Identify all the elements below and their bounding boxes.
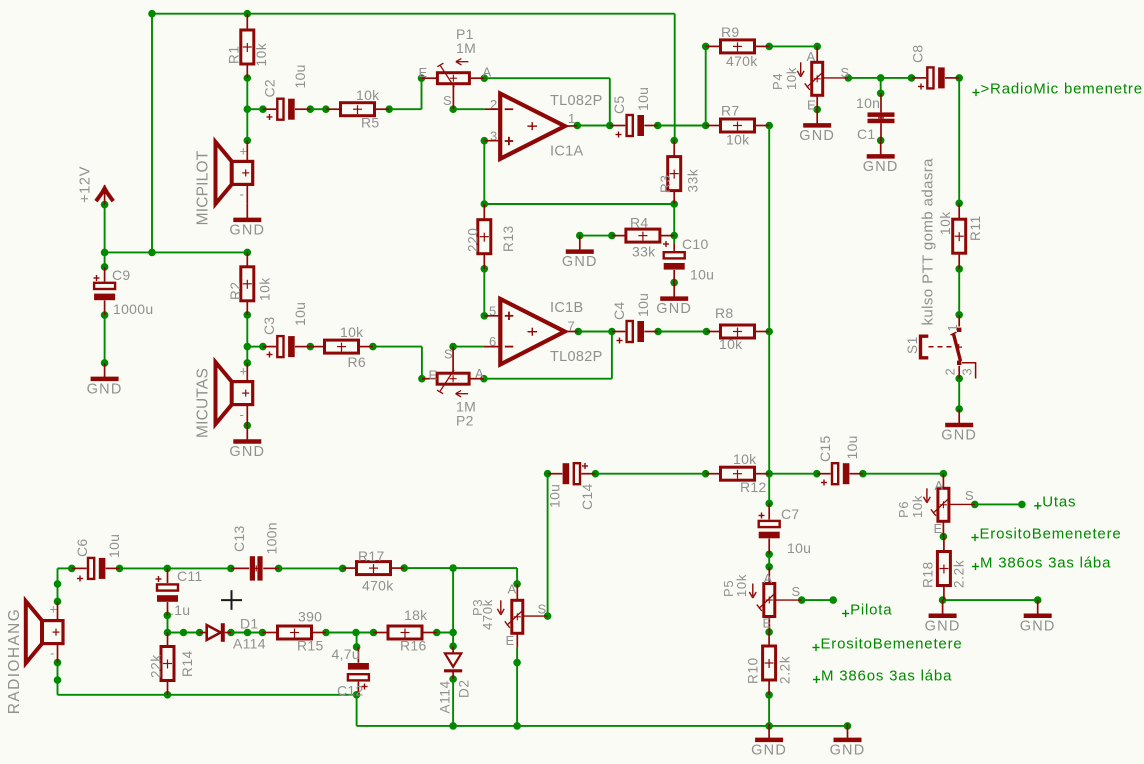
net label ErositoBemenetere left — [812, 635, 962, 652]
resistor R12 — [706, 451, 770, 495]
svg-text:E: E — [429, 368, 438, 383]
svg-text:+: + — [240, 144, 248, 159]
speaker MICUTAS — [195, 362, 253, 438]
junction — [164, 612, 204, 637]
junction — [148, 10, 251, 18]
svg-text:R10: R10 — [746, 657, 761, 684]
wire — [310, 108, 326, 110]
capacitor C15 — [817, 435, 863, 485]
svg-text:R8: R8 — [715, 305, 734, 321]
svg-text:10u: 10u — [292, 64, 308, 88]
svg-text:10u: 10u — [787, 540, 811, 556]
svg-text:C9: C9 — [112, 267, 131, 283]
svg-text:10u: 10u — [292, 302, 308, 326]
capacitor C1 — [856, 93, 895, 142]
svg-text:10k: 10k — [254, 43, 269, 67]
junction — [259, 343, 488, 383]
svg-text:GND: GND — [751, 742, 787, 758]
svg-text:IC1A: IC1A — [550, 144, 583, 160]
svg-text:1000u: 1000u — [113, 301, 153, 317]
svg-text:R5: R5 — [361, 115, 380, 131]
svg-text:C3: C3 — [261, 317, 277, 336]
net label RadioMic bemenetre — [972, 80, 1142, 97]
junction — [574, 122, 774, 130]
capacitor C3 — [261, 302, 310, 358]
speaker MICPILOT — [195, 142, 253, 226]
svg-text:R17: R17 — [358, 548, 385, 564]
wire — [577, 125, 610, 127]
svg-text:A: A — [935, 478, 944, 493]
junction — [670, 137, 678, 287]
svg-text:R16: R16 — [400, 638, 427, 654]
resistor R6 — [310, 324, 373, 370]
wire — [768, 695, 770, 726]
capacitor C10 — [663, 236, 714, 283]
svg-text:33k: 33k — [632, 244, 656, 260]
svg-text:TL082P: TL082P — [550, 93, 603, 109]
wire — [246, 78, 248, 141]
junction — [845, 74, 964, 144]
svg-text:C15: C15 — [817, 435, 833, 462]
junction — [939, 501, 1042, 604]
svg-text:C7: C7 — [781, 506, 800, 522]
svg-text:E: E — [763, 616, 772, 631]
svg-text:A: A — [764, 571, 773, 586]
svg-text:2.2k: 2.2k — [952, 560, 967, 588]
resistor R16 — [374, 607, 437, 654]
op-amp IC1A — [490, 93, 603, 160]
wire — [58, 567, 72, 569]
svg-text:10k: 10k — [733, 451, 757, 467]
svg-text:10k: 10k — [910, 495, 925, 518]
capacitor C7 — [759, 503, 812, 556]
op-amp pins — [484, 109, 578, 346]
junction — [544, 470, 947, 478]
ground (P4) — [799, 109, 835, 143]
svg-text:470k: 470k — [362, 578, 394, 594]
junction — [259, 105, 393, 113]
wire — [247, 108, 263, 110]
svg-text:S: S — [841, 65, 850, 80]
resistor R14 — [149, 633, 196, 695]
svg-text:R11: R11 — [968, 215, 983, 241]
resistor R5 — [326, 87, 389, 131]
svg-text:470k: 470k — [480, 599, 495, 630]
capacitor C14 — [547, 463, 596, 510]
wire — [609, 78, 611, 125]
svg-text:10k: 10k — [258, 277, 273, 301]
svg-text:R6: R6 — [348, 354, 367, 370]
potentiometer P1 — [419, 26, 492, 109]
svg-text:+12V: +12V — [78, 166, 94, 203]
svg-text:MICPILOT: MICPILOT — [195, 150, 212, 225]
op-amp IC1B — [489, 299, 603, 365]
svg-text:Utas: Utas — [1042, 494, 1076, 511]
ground (rail left) — [751, 724, 787, 759]
wire — [484, 203, 674, 205]
capacitor C6 — [72, 534, 122, 582]
wire — [516, 663, 518, 726]
svg-text:10k: 10k — [726, 132, 750, 148]
svg-text:R1: R1 — [227, 45, 242, 64]
svg-text:C12: C12 — [337, 683, 364, 699]
svg-text:A: A — [508, 582, 517, 597]
svg-text:C5: C5 — [611, 96, 627, 115]
capacitor C9 — [94, 267, 154, 317]
potentiometer P2 — [422, 347, 484, 429]
potentiometer P6 — [896, 474, 975, 537]
svg-text:10k: 10k — [356, 87, 380, 103]
svg-text:-: - — [240, 407, 245, 422]
junction — [101, 263, 109, 367]
svg-text:4,7u: 4,7u — [332, 646, 360, 662]
wire — [357, 725, 769, 727]
svg-text:R12: R12 — [740, 479, 767, 495]
junction — [164, 580, 552, 698]
resistor R18 — [921, 537, 967, 601]
net label Pilota — [842, 601, 892, 618]
wire — [356, 633, 358, 647]
svg-text:>RadioMic bemenetre: >RadioMic bemenetre — [981, 80, 1143, 97]
wire — [105, 251, 248, 253]
resistor R13 — [466, 204, 517, 269]
potentiometer P3 — [470, 582, 548, 649]
svg-text:C6: C6 — [74, 539, 90, 558]
wire — [975, 503, 1022, 505]
wire — [373, 346, 422, 348]
svg-text:1M: 1M — [456, 40, 476, 56]
ground (R18 right) — [1020, 600, 1056, 635]
svg-text:D2: D2 — [457, 679, 472, 698]
svg-text:RADIOHANG: RADIOHANG — [6, 608, 23, 714]
wire — [578, 331, 612, 333]
svg-text:TL082P: TL082P — [550, 349, 603, 365]
svg-text:GND: GND — [656, 301, 692, 317]
svg-text:C10: C10 — [682, 236, 709, 252]
svg-text:220: 220 — [466, 227, 481, 252]
net label ErositoBemenetere right — [971, 525, 1121, 542]
junction — [244, 74, 252, 144]
svg-text:GND: GND — [925, 618, 961, 634]
wire — [326, 632, 374, 634]
svg-text:10u: 10u — [106, 534, 122, 558]
svg-text:10u: 10u — [635, 293, 651, 317]
wire — [404, 567, 517, 569]
wire — [421, 78, 423, 109]
capacitor C5 — [610, 87, 658, 138]
wire — [483, 269, 485, 316]
svg-text:M 386os 3as lába: M 386os 3as lába — [980, 554, 1111, 571]
wire — [152, 13, 675, 15]
svg-text:GND: GND — [229, 444, 265, 460]
svg-text:10n: 10n — [856, 95, 880, 111]
junction — [353, 642, 521, 729]
resistor R2 — [228, 252, 273, 315]
svg-text:10k: 10k — [719, 336, 743, 352]
ground (C10) — [656, 283, 692, 318]
wire — [580, 235, 612, 237]
wire — [246, 315, 248, 363]
svg-text:M 386os 3as lába: M 386os 3as lába — [821, 667, 952, 684]
ground (MICUTAS) — [229, 426, 265, 461]
diode D1 — [200, 616, 266, 652]
wire — [958, 379, 960, 410]
svg-text:D1: D1 — [240, 616, 259, 632]
capacitor C13 — [231, 522, 280, 580]
junction — [418, 74, 488, 113]
wire — [943, 599, 1038, 601]
svg-text:R3: R3 — [658, 174, 673, 193]
svg-text:C8: C8 — [910, 45, 926, 64]
wire — [356, 695, 358, 726]
svg-text:10u: 10u — [844, 435, 860, 459]
capacitor C11 — [156, 568, 203, 618]
ground (C9) — [87, 363, 123, 398]
svg-text:GND: GND — [562, 254, 598, 270]
ground (R18 left) — [925, 600, 961, 635]
switch S1 — [905, 315, 976, 379]
wire — [769, 45, 817, 47]
svg-text:1: 1 — [568, 111, 576, 126]
wire — [279, 567, 343, 569]
svg-text:A114: A114 — [233, 636, 266, 652]
svg-text:S: S — [538, 602, 547, 617]
svg-text:2: 2 — [943, 368, 958, 376]
wire — [658, 125, 706, 127]
svg-text:R18: R18 — [921, 561, 936, 588]
junction — [798, 596, 837, 604]
junction — [101, 201, 251, 256]
resistor R7 — [706, 103, 770, 148]
svg-text:kulso PTT gomb adasra: kulso PTT gomb adasra — [920, 158, 937, 326]
svg-text:22k: 22k — [149, 654, 164, 678]
wire — [484, 77, 610, 79]
wire — [769, 473, 817, 475]
svg-text:1: 1 — [945, 324, 960, 332]
potentiometer P5 — [721, 567, 802, 632]
wire — [104, 315, 106, 363]
svg-text:10k: 10k — [784, 67, 799, 90]
svg-text:GND: GND — [1020, 618, 1056, 634]
wire — [595, 473, 705, 475]
svg-text:R7: R7 — [721, 103, 740, 119]
wire — [658, 331, 706, 333]
svg-text:GND: GND — [799, 128, 835, 144]
svg-text:A: A — [483, 65, 492, 80]
wire — [421, 347, 423, 379]
junction — [702, 43, 821, 114]
wire — [120, 567, 231, 569]
wire — [231, 632, 262, 634]
junction — [68, 564, 457, 572]
svg-text:A114: A114 — [438, 680, 453, 713]
junction — [481, 137, 489, 320]
svg-text:GND: GND — [87, 381, 123, 397]
wire — [453, 108, 485, 110]
wire — [880, 78, 882, 93]
speaker pins — [58, 141, 248, 663]
svg-text:S: S — [444, 347, 453, 362]
svg-text:A: A — [807, 49, 816, 64]
wire — [674, 14, 676, 141]
capacitor C2 — [262, 64, 311, 120]
wire — [437, 632, 453, 634]
wire — [516, 568, 518, 584]
svg-text:E: E — [419, 65, 428, 80]
speaker RADIOHANG — [6, 601, 63, 714]
wire — [768, 126, 770, 504]
wire — [863, 473, 944, 475]
svg-text:-: - — [240, 187, 245, 202]
wire — [516, 648, 518, 663]
svg-text:R13: R13 — [501, 225, 516, 252]
net label M386 right — [972, 554, 1111, 571]
svg-text:C13: C13 — [231, 525, 247, 552]
resistor R15 — [262, 609, 326, 654]
svg-text:GND: GND — [830, 742, 866, 758]
resistor R10 — [746, 632, 793, 695]
wire — [453, 346, 484, 348]
svg-text:ErositoBemenetere: ErositoBemenetere — [980, 525, 1122, 542]
potentiometer P4 — [770, 46, 850, 112]
junction — [244, 311, 252, 429]
svg-text:.1u: .1u — [170, 602, 190, 618]
svg-text:10k: 10k — [734, 574, 749, 597]
+12V supply symbol — [78, 166, 114, 205]
junction — [54, 580, 62, 684]
svg-text:MICUTAS: MICUTAS — [195, 368, 212, 438]
capacitor C4 — [611, 293, 658, 344]
net label Utas — [1034, 494, 1076, 511]
wire — [247, 346, 263, 348]
svg-text:P2: P2 — [456, 413, 474, 429]
svg-text:A: A — [475, 366, 484, 381]
svg-text:E: E — [934, 521, 943, 536]
svg-text:R2: R2 — [228, 281, 243, 300]
svg-text:P6: P6 — [896, 501, 911, 518]
wire — [958, 78, 960, 203]
svg-text:+: + — [240, 364, 248, 379]
wire — [57, 663, 59, 695]
svg-text:C1: C1 — [857, 126, 876, 142]
resistor R3 — [658, 141, 701, 205]
svg-text:C4: C4 — [611, 302, 627, 321]
wire — [57, 568, 59, 601]
wire — [483, 141, 485, 204]
svg-text:S: S — [965, 488, 974, 503]
svg-text:2.2k: 2.2k — [778, 656, 793, 684]
svg-text:390: 390 — [298, 609, 322, 625]
svg-text:ErositoBemenetere: ErositoBemenetere — [821, 635, 963, 652]
svg-text:E: E — [506, 633, 515, 648]
wire — [848, 77, 911, 79]
net label M386 left — [813, 667, 952, 684]
resistor R1 — [227, 14, 270, 78]
wire — [168, 632, 200, 634]
svg-text:10u: 10u — [547, 484, 563, 508]
svg-text:Pilota: Pilota — [850, 601, 892, 618]
svg-text:18k: 18k — [404, 607, 428, 623]
svg-text:GND: GND — [229, 222, 265, 238]
svg-text:E: E — [807, 98, 816, 113]
wire — [768, 554, 770, 567]
ground (C1) — [863, 140, 899, 175]
svg-text:+: + — [50, 602, 58, 617]
ground (R4) — [562, 236, 598, 271]
svg-text:C14: C14 — [579, 483, 595, 510]
svg-text:-: - — [50, 646, 55, 661]
svg-text:470k: 470k — [726, 53, 758, 69]
svg-text:R14: R14 — [180, 650, 195, 677]
wire — [547, 474, 549, 616]
svg-text:GND: GND — [941, 428, 977, 444]
capacitor C8 — [910, 45, 960, 90]
wire — [389, 108, 421, 110]
junction — [765, 500, 851, 730]
svg-text:33k: 33k — [686, 169, 701, 193]
resistor R8 — [706, 305, 769, 352]
wire — [705, 46, 707, 125]
resistor R4 — [612, 215, 674, 260]
wire — [484, 378, 612, 380]
junction — [575, 328, 774, 336]
wire — [104, 252, 106, 267]
wire — [673, 204, 675, 244]
svg-text:C2: C2 — [262, 79, 278, 98]
svg-text:10k: 10k — [938, 211, 953, 235]
svg-text:R15: R15 — [297, 638, 324, 654]
junction — [955, 200, 963, 413]
ground (rail right) — [830, 724, 866, 759]
junction — [576, 232, 616, 240]
resistor R9 — [706, 24, 770, 69]
junction — [227, 629, 457, 637]
svg-text:GND: GND — [863, 159, 899, 175]
wire — [452, 679, 454, 726]
wire — [151, 14, 153, 253]
svg-text:IC1B: IC1B — [550, 300, 583, 316]
wire — [611, 332, 613, 379]
wire — [452, 568, 454, 646]
wire — [58, 694, 357, 696]
sheet origin cross — [221, 590, 242, 610]
resistor R11 — [938, 203, 983, 269]
svg-text:S: S — [792, 584, 801, 599]
ground (S1) — [941, 409, 977, 444]
ground (MICPILOT) — [229, 204, 265, 239]
capacitor C12 — [332, 646, 369, 699]
svg-text:10u: 10u — [690, 267, 714, 283]
wire — [167, 615, 169, 632]
svg-text:R9: R9 — [721, 24, 740, 40]
resistor R17 — [343, 548, 405, 594]
wire — [769, 725, 847, 727]
wire — [958, 269, 960, 315]
svg-text:C11: C11 — [177, 568, 203, 584]
wire — [104, 205, 106, 253]
wire — [802, 599, 834, 601]
svg-text:P4: P4 — [770, 73, 785, 90]
svg-text:10u: 10u — [635, 87, 651, 111]
diode D2 — [438, 646, 472, 713]
svg-text:100n: 100n — [264, 522, 280, 554]
svg-text:3: 3 — [960, 368, 975, 376]
svg-text:S1: S1 — [905, 336, 920, 354]
svg-text:R4: R4 — [630, 215, 649, 231]
svg-text:10k: 10k — [340, 324, 364, 340]
svg-text:S: S — [443, 93, 452, 108]
